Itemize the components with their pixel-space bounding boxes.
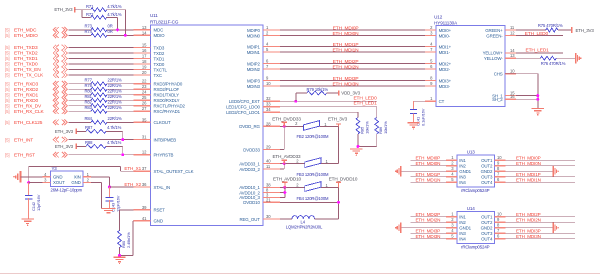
Y3 pin 2 GND [83,182,91,184]
offpage connector ETH_TX_EN [53,67,67,73]
svg-text:AVDD33_2: AVDD33_2 [239,167,260,172]
svg-text:LED2/CFG_LDO1: LED2/CFG_LDO1 [226,110,260,115]
svg-text:ETH_TXD3: ETH_TXD3 [14,45,38,51]
wire R76 to ground [556,57,575,59]
svg-text:ETH_MDI3P: ETH_MDI3P [416,229,441,234]
svg-text:[5]: [5] [5,67,9,72]
wire ETH_INT [69,139,134,141]
wire GREEN- ETH_LED0 [516,35,563,37]
crystal Y3 26M body [51,171,84,187]
svg-text:[5]: [5] [5,28,9,33]
svg-text:AVDD33_1: AVDD33_1 [239,161,260,166]
U11 pin 3 AVDD10_3 [239,192,280,200]
svg-text:7: 7 [497,228,500,233]
wire ETH_X1 from XOUT node to pin 37 [29,166,121,168]
U11 pin 7 MDIN2 [247,64,280,72]
ground under C142 [21,218,33,220]
U12 pin 7 MDI1- [425,47,451,55]
svg-text:11: 11 [510,25,515,30]
wire R79 to LED0 [296,92,307,94]
wire R71 to ETH_MDIO [107,9,126,11]
svg-text:0R: 0R [108,23,113,28]
wire Y3 pin4 to ground [21,176,43,178]
net label ETH_RXD2 [5,87,38,93]
svg-text:ETH_RXD2: ETH_RXD2 [14,87,38,93]
svg-text:GND: GND [154,219,163,224]
svg-text:13: 13 [510,53,515,58]
U11 pin 2 MDIN0 [247,31,280,39]
offpage connector ETH_TXD0 [53,61,67,67]
svg-text:ETH_TXD0: ETH_TXD0 [14,62,38,68]
wire ETH_TX_EN [69,69,134,71]
svg-text:VDD_3V3: VDD_3V3 [341,91,360,96]
svg-text:ETH_RST: ETH_RST [14,152,35,158]
net label ETH_INT [5,137,33,143]
svg-text:7: 7 [266,64,269,69]
svg-text:OUT2: OUT2 [481,164,493,169]
svg-text:ETH_X2: ETH_X2 [124,182,141,187]
wire ETH_MDC [69,29,92,31]
resistor R80 22R/1% [85,88,123,96]
net label ETH_TXD1 [5,56,38,62]
power port ETH_AVDD10 [273,177,302,188]
U13 pin 8 GND2 [481,166,506,174]
U11 pin 18 TXD0 [134,59,165,67]
wire U14 IN3 ETH_MDI3P [411,232,446,234]
wire AVDD33_2 join [283,164,285,170]
svg-text:10: 10 [497,212,502,217]
wire U13 IN4 ETH_MDI1N [411,181,446,183]
svg-text:9: 9 [497,217,500,222]
svg-text:33: 33 [266,102,271,107]
power port VDD_3V3 [327,91,361,96]
svg-text:ETH_MDI1N: ETH_MDI1N [416,178,441,183]
svg-text:30: 30 [266,214,271,219]
svg-text:HY911130A: HY911130A [434,20,458,25]
wire U13 GND1 [401,170,446,172]
svg-text:1: 1 [266,25,269,30]
svg-text:9: 9 [430,81,433,86]
U11 pin 13 MDC [134,25,164,33]
wire pin 34 LED2 [280,111,358,113]
resistor R82 22R/1% [85,99,123,107]
junction on ETH_INT [121,138,124,141]
power port ETH_DVDD10 [329,177,358,188]
U11 pin 38 AVDD10_1 [239,182,280,190]
svg-text:MDI0-: MDI0- [439,33,451,38]
U12 pin 13 YELLOW- [484,53,516,61]
svg-text:22R/1%: 22R/1% [108,83,123,88]
junction AVDD33 [283,162,286,165]
svg-text:MDIP3: MDIP3 [247,78,260,83]
U11 pin 21 DVDD10 [243,197,280,205]
U13 pin 5 IN4 [446,177,466,185]
svg-text:LED1/CFG_LDO0: LED1/CFG_LDO0 [226,105,260,110]
svg-text:ETH_RXD1: ETH_RXD1 [14,92,38,98]
svg-text:R83: R83 [85,105,93,110]
Y3 pin 3 XOUT [43,182,51,184]
wire SH_1 [516,95,538,97]
svg-text:22R/1%: 22R/1% [108,94,123,99]
wire DVDD10 (pin 21) [280,201,339,203]
svg-text:XOUT: XOUT [53,180,65,185]
wire ETH_MDI0P [280,29,425,31]
svg-text:R80: R80 [85,88,93,93]
svg-text:CHS: CHS [494,72,503,77]
svg-text:ETH_MDI1N: ETH_MDI1N [332,47,359,53]
U11 pin 33 LED1/CFG_LDO0 [226,102,280,110]
ESD clamp U14 rRClamp0524P body [457,212,495,244]
svg-text:[5]: [5] [5,62,9,67]
resistor R79 10k/1% [307,87,329,95]
junction AVDD10 a [283,186,286,189]
wire R72 left [82,16,91,18]
svg-text:18: 18 [142,59,147,64]
U11 pin 30 REG_OUT [239,214,280,222]
capacitor C143 12pF/16V [106,187,121,212]
wire R85/R86 commons [357,134,359,147]
svg-text:7: 7 [430,47,433,52]
U12 pin 6 MDI2- [425,64,451,72]
svg-text:MDI3+: MDI3+ [439,78,452,83]
svg-text:MDIN2: MDIN2 [247,67,261,72]
junction R71/ETH_MDIO [124,34,127,37]
svg-text:RXD1/TXDLY: RXD1/TXDLY [154,93,180,98]
power port ETH_AVDD33 [273,154,302,164]
wire ETH_MDI1N [280,51,425,53]
svg-text:R74: R74 [85,29,93,34]
wire U13 OUT3 ETH_MDI1P [506,176,575,178]
svg-text:OUT4: OUT4 [481,237,493,242]
svg-text:XTAL_IN: XTAL_IN [154,185,171,190]
svg-text:FB4 120R@100M: FB4 120R@100M [297,196,330,201]
U12 pin 4 MDI1+ [425,42,452,50]
U14 pin 6 OUT4 [481,234,506,242]
svg-text:5: 5 [451,234,454,239]
svg-text:IN3: IN3 [459,231,466,236]
wire DVDD_RG to DVDD33 [283,126,285,149]
ground (sideways) U14 GND1 [400,223,402,233]
offpage connector ETH_TXD2 [53,50,67,56]
svg-text:[5]: [5] [5,92,9,97]
svg-text:ETH_INT: ETH_INT [14,137,33,143]
svg-text:MDI1+: MDI1+ [439,44,452,49]
svg-text:GND: GND [71,180,80,185]
U11 pin 35 CLKOUT [134,117,171,125]
wire R71 branch down to R72 [81,10,83,18]
svg-text:[5]: [5] [5,51,9,56]
svg-text:RXCTL/PHYAD2: RXCTL/PHYAD2 [154,104,186,109]
net label ETH_RX_CLK [5,109,45,115]
offpage connector ETH_MDIO [53,33,67,39]
svg-text:ETH_3V3: ETH_3V3 [55,144,74,149]
ESD clamp U13 rRClamp0524P body [457,155,495,187]
svg-text:2: 2 [296,182,299,187]
U14 pin 3 GND1 [446,223,472,231]
U11 pin 39 RSET [134,205,166,213]
svg-text:FB3 120R@100M: FB3 120R@100M [297,172,330,177]
svg-text:DVDD33: DVDD33 [243,147,260,152]
svg-text:MDIN0: MDIN0 [247,33,261,38]
svg-text:DVDD_RG: DVDD_RG [239,124,260,129]
wire ETH_TXD2 [69,52,134,54]
svg-text:ETH_RX_CLK: ETH_RX_CLK [14,109,45,115]
svg-text:ETH_MDI2N: ETH_MDI2N [416,218,441,223]
U12 pin 1 CT [425,96,445,104]
svg-text:OUT1: OUT1 [481,158,493,163]
wire U13 OUT1 ETH_MDI0P [506,159,575,161]
svg-text:U13: U13 [467,150,476,155]
svg-text:1: 1 [430,96,433,101]
svg-text:6: 6 [430,64,433,69]
U11 pin 6 MDIP2 [247,59,280,67]
net label ETH_MDIO [5,33,38,39]
svg-text:22: 22 [142,79,147,84]
wire FB4 out to ETH_DVDD10 [321,186,339,188]
U11 pin 9 MDIP3 [247,76,280,84]
svg-text:[5]: [5] [5,81,9,86]
U14 pin 8 GND2 [481,223,506,231]
U12 pin 10 CHS [494,69,516,77]
svg-text:4: 4 [266,42,269,47]
U12 pin 16 SH_2 [492,94,516,102]
svg-text:R79 10k/1%: R79 10k/1% [307,87,329,92]
U14 pin 1 IN1 [446,212,466,220]
svg-text:CLKOUT: CLKOUT [154,120,171,125]
U11 pin 10 MDIN3 [247,81,280,89]
svg-text:DVDD10: DVDD10 [243,200,260,205]
wire ETH_MDI0N [280,35,425,37]
svg-text:TXC: TXC [154,73,162,78]
U11 pin 11 AVDD33_2 [239,164,280,172]
wire XOUT [29,182,43,184]
svg-text:ETH_TX_CLK: ETH_TX_CLK [14,73,44,79]
svg-text:CT: CT [439,99,445,104]
wire ETH_TXD3 [69,47,134,49]
wire Y3 pin2 to ground [91,182,102,184]
svg-text:37: 37 [142,166,147,171]
svg-text:R72: R72 [86,12,94,17]
svg-text:3: 3 [44,178,47,183]
svg-text:[5]: [5] [5,73,9,78]
U11 pin 8 AVDD10_2 [239,188,280,196]
U14 pin 10 OUT1 [481,212,506,220]
ground under C143 and Y3 pin2 [102,208,116,212]
svg-text:8: 8 [497,166,500,171]
ground below R89 [113,256,125,258]
svg-text:21: 21 [266,197,271,202]
inductor L4 LQM2HPN2R2MJ0L [286,216,323,230]
U13 pin 4 IN3 [446,172,466,180]
svg-text:MDC: MDC [154,28,164,33]
U11 pin 27 RXC/PHYAD1 [134,106,181,114]
ground below R85/R86 [350,148,362,150]
wire FB2 out to ETH_3V3 [320,125,339,127]
svg-text:GND1: GND1 [459,226,471,231]
power port ETH_3V3 (R88 pullup) [55,144,76,150]
U14 pin 4 IN3 [446,228,466,236]
U12 pin 11 GREEN+ [485,25,516,33]
svg-text:4.7k/1%: 4.7k/1% [107,125,122,130]
svg-text:TXD1: TXD1 [154,56,165,61]
wire ETH_3V3 to R71 [75,9,91,11]
svg-text:ETH_3V3: ETH_3V3 [54,7,73,12]
net label ETH_TX_CLK [5,73,44,79]
svg-text:ETH_TXD2: ETH_TXD2 [14,51,38,57]
U11 pin 41 GND [134,216,163,224]
svg-text:IN4: IN4 [459,237,466,242]
wire R75 to ETH_3V3 [558,29,572,31]
bottom window edge line [0,272,600,274]
wire ETH_MDI1P [280,46,425,48]
svg-text:ETH_MDI3N: ETH_MDI3N [416,234,441,239]
ground (sideways) at Y3 pin 4 [13,171,20,182]
svg-text:20: 20 [142,70,147,75]
svg-text:ETH_DVDD10: ETH_DVDD10 [329,177,358,182]
svg-text:10: 10 [266,81,271,86]
svg-text:41: 41 [142,216,147,221]
U12 pin 15 SH_1 [492,91,516,99]
U14 pin 2 IN2 [446,217,466,225]
svg-text:22R/1%: 22R/1% [108,88,123,93]
svg-text:MDI2+: MDI2+ [439,61,452,66]
resistor R83 22R/1% [85,105,123,113]
U14 pin 5 IN4 [446,234,466,242]
svg-text:4.7k/1%: 4.7k/1% [107,4,122,9]
svg-text:TXD0: TXD0 [154,62,165,67]
U12 pin 8 MDI3+ [425,76,452,84]
junction DVDD10 [337,201,340,204]
wire U14 GND1 [401,227,446,229]
svg-text:5: 5 [430,59,433,64]
svg-text:7: 7 [497,172,500,177]
svg-text:XIN: XIN [74,174,81,179]
svg-text:ETH_LED1: ETH_LED1 [353,100,377,106]
svg-text:35: 35 [142,117,147,122]
svg-text:ETH_MDI1P: ETH_MDI1P [333,42,359,48]
svg-text:15: 15 [142,43,147,48]
svg-text:U14: U14 [467,206,476,211]
svg-text:R78: R78 [85,83,93,88]
wire LED1 down to R86 [376,107,378,118]
offpage connector ETH_RX_DV [53,103,67,109]
svg-text:19: 19 [142,65,147,70]
svg-text:3: 3 [430,31,433,36]
svg-text:TXCTL: TXCTL [154,67,168,72]
svg-text:ETH_MDI3P: ETH_MDI3P [333,76,359,82]
svg-text:2: 2 [295,121,298,126]
ground under C141 [407,122,419,124]
wire ETH_MDI3N [280,85,425,87]
svg-text:[5]: [5] [5,98,9,103]
ground (sideways) U13 GND2 [552,166,554,176]
wire ETH_MDI2P [280,63,425,65]
wire ETH_TXD1 [69,58,134,60]
U12 pin 12 GREEN- [486,31,516,39]
transformer U12 HY911130A body [436,25,505,106]
wire XIN to ETH_X2 node [91,176,110,178]
wire ETH_RST [69,154,134,156]
svg-text:0R: 0R [108,29,113,34]
wire ETH_MDI2N [280,68,425,70]
svg-text:ETH_MDIO: ETH_MDIO [14,33,38,39]
resistor R80 2.49k/1% [118,230,132,248]
power port ETH_3V3 (FB2) [328,117,348,127]
svg-text:28: 28 [266,121,271,126]
wire ETH_MDIO [69,34,92,36]
svg-text:[5]: [5] [5,56,9,61]
svg-text:39: 39 [142,205,147,210]
svg-text:ETH_MDI0P: ETH_MDI0P [516,156,541,161]
offpage connector ETH_RXD1 [53,92,67,98]
wire ETH_RX_DV [69,105,92,107]
svg-text:IN1: IN1 [459,158,466,163]
svg-text:RXC/PHYAD1: RXC/PHYAD1 [154,109,181,114]
U13 pin 1 IN1 [446,155,466,163]
U13 pin 6 OUT4 [481,177,506,185]
svg-text:rRClamp0524P: rRClamp0524P [461,188,490,193]
svg-text:FB2 120R@100M: FB2 120R@100M [297,134,330,139]
Y3 pin 1 XIN [83,176,91,178]
power port ETH_3V3 (R75) [572,27,595,33]
svg-text:1: 1 [451,155,454,160]
junction ETH_DVDD33 [283,125,286,128]
svg-text:R87: R87 [85,125,93,130]
net label ETH_TXD0 [5,62,38,68]
U11 pin 17 TXD1 [134,54,165,62]
wire ETH_TX_CLK [69,74,134,76]
svg-text:LQM2HPN2R2MJ0L: LQM2HPN2R2MJ0L [286,225,323,230]
wire FB3 out to rail [321,163,339,165]
wire ETH_RX_CLK [69,110,92,112]
wire ETH_LED1 (pin 33) [280,106,377,108]
svg-text:RXD0/RXDLY: RXD0/RXDLY [154,98,180,103]
U13 pin 3 GND1 [446,166,472,174]
offpage connector ETH_TX_CLK [53,72,67,78]
svg-text:3: 3 [451,166,454,171]
svg-text:R84: R84 [85,116,93,121]
net label ETH_TXD3 [5,45,38,51]
svg-text:INTB/PMEB: INTB/PMEB [154,137,177,142]
svg-text:23: 23 [142,84,147,89]
wire ETH_CLK125 [69,121,92,123]
ferrite bead FB4 120R@100M [296,182,329,202]
svg-text:2: 2 [451,217,454,222]
svg-text:25: 25 [142,95,147,100]
svg-text:XTAL_OUTEXT_CLK: XTAL_OUTEXT_CLK [154,169,194,174]
wire ETH_RXD3 [69,83,92,85]
Y3 pin 4 GND [43,176,51,178]
svg-text:40: 40 [266,159,271,164]
svg-text:ETH_LED1: ETH_LED1 [526,48,550,54]
svg-text:29: 29 [266,145,271,150]
wire ETH_RXD2 [69,88,92,90]
svg-text:MDI0+: MDI0+ [439,28,452,33]
IC U11 RTL8211F-CG body [151,25,264,225]
svg-text:2: 2 [87,178,90,183]
wire ETH_RXD0 [69,99,92,101]
svg-text:ETH_AVDD10: ETH_AVDD10 [273,177,302,182]
svg-text:[5]: [5] [5,45,9,50]
wire ETH_LED0 (pin 32) [280,100,377,102]
svg-text:R75 470R/1%: R75 470R/1% [538,23,563,28]
wire ETH_DVDD10 rail [338,187,340,219]
U14 pin 9 OUT2 [481,217,506,225]
svg-text:ETH_MDI2P: ETH_MDI2P [416,212,441,217]
wire ETH_X2 to pin 36 [110,186,134,188]
svg-text:10k/1%: 10k/1% [383,121,388,134]
wire DVDD_RG (pin 28) [280,125,304,127]
